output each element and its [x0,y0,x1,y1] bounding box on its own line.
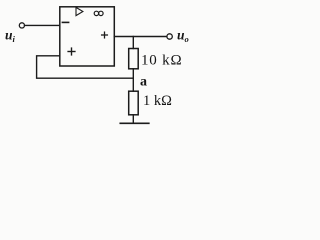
svg-text:10 kΩ: 10 kΩ [141,53,182,69]
svg-text:a: a [140,75,147,90]
svg-text:1 kΩ: 1 kΩ [143,93,172,109]
